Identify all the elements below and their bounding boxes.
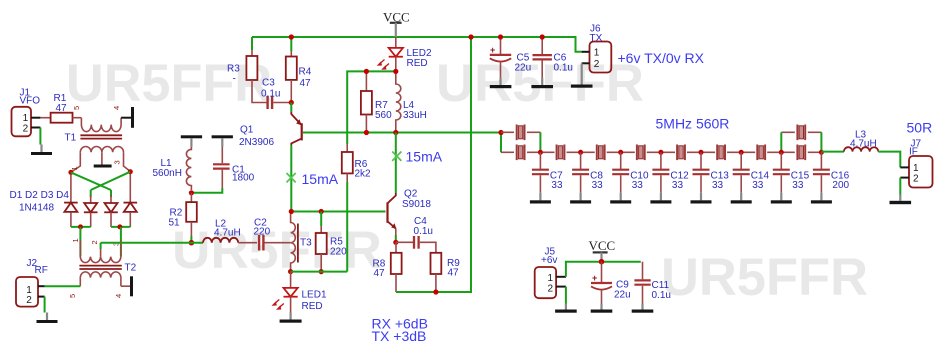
svg-text:200: 200 xyxy=(832,180,849,191)
svg-text:VCC: VCC xyxy=(589,238,616,253)
crystal series 5 xyxy=(715,144,727,161)
svg-text:RED: RED xyxy=(302,301,323,312)
wire base line xyxy=(303,132,501,134)
node diode pair left xyxy=(78,224,83,229)
label J2 RF xyxy=(27,258,48,276)
wire output pair left riser xyxy=(780,132,782,152)
label LED2 RED xyxy=(407,48,432,69)
inductor L1 xyxy=(186,147,191,190)
label LED1 RED xyxy=(302,290,327,313)
svg-text:5MHz 560R: 5MHz 560R xyxy=(656,116,730,132)
svg-text:33: 33 xyxy=(592,180,604,191)
node rail R4 xyxy=(289,34,294,39)
label R6 2k2 xyxy=(355,159,372,180)
label L1 560nH xyxy=(153,158,182,179)
svg-text:LED1: LED1 xyxy=(302,290,327,301)
svg-text:560nH: 560nH xyxy=(153,168,182,179)
label R2 51 xyxy=(169,208,183,229)
svg-text:2: 2 xyxy=(26,295,32,306)
svg-text:Q1: Q1 xyxy=(240,125,254,136)
svg-text:33: 33 xyxy=(752,180,764,191)
label R1 47 xyxy=(54,93,68,114)
capacitor C5 xyxy=(490,37,511,78)
T1 pin numbers xyxy=(70,106,122,171)
ground right of T1 xyxy=(131,107,134,128)
connector J2 xyxy=(16,277,45,307)
svg-text:TX: TX xyxy=(590,33,603,44)
label RX +6dB TX +3dB xyxy=(372,315,428,344)
ground below C6 xyxy=(531,78,553,89)
svg-text:+6v: +6v xyxy=(541,255,557,266)
transistor Q2 xyxy=(388,193,397,242)
ground at J1 xyxy=(31,145,52,156)
svg-text:0.1u: 0.1u xyxy=(414,226,433,237)
svg-text:15mA: 15mA xyxy=(302,171,339,187)
label R5 220 xyxy=(330,237,347,258)
wire emitter resistors return xyxy=(396,37,471,292)
ground below J6 xyxy=(571,85,593,88)
svg-text:2: 2 xyxy=(594,59,600,70)
resistor R1 xyxy=(51,113,82,123)
svg-text:33: 33 xyxy=(712,180,724,191)
svg-text:2: 2 xyxy=(23,123,29,134)
wire LED1 node xyxy=(291,271,348,273)
node RX line xyxy=(189,240,195,246)
svg-text:2: 2 xyxy=(913,174,919,185)
svg-text:RF: RF xyxy=(35,265,48,276)
svg-text:1800: 1800 xyxy=(232,173,255,184)
label C8 33 xyxy=(590,171,603,192)
svg-text:33: 33 xyxy=(551,180,563,191)
svg-text:UR5FFR: UR5FFR xyxy=(172,221,382,280)
diode D4 xyxy=(124,174,138,227)
capacitor C1 xyxy=(213,147,230,188)
svg-text:22u: 22u xyxy=(614,290,631,301)
ground at J2 xyxy=(37,313,58,324)
node L1 C1 R2 xyxy=(189,190,194,195)
svg-text:UR5FFR: UR5FFR xyxy=(436,54,644,113)
label R8 47 xyxy=(373,259,386,280)
capacitor C8 xyxy=(570,150,591,204)
label L4 33uH xyxy=(403,100,427,121)
diode D1 xyxy=(64,175,78,227)
label C11 0.1u xyxy=(652,280,671,301)
ground below J5 xyxy=(555,304,577,313)
capacitor C12 xyxy=(650,150,671,204)
svg-text:UR5FFR: UR5FFR xyxy=(661,248,868,307)
capacitor C9 xyxy=(591,262,612,304)
svg-text:0.1u: 0.1u xyxy=(261,89,280,100)
resistor R8 xyxy=(391,242,402,292)
wire to T2 winding xyxy=(80,227,121,256)
diode D2 xyxy=(84,195,98,227)
svg-text:D1 D2 D3 D4: D1 D2 D3 D4 xyxy=(10,190,70,201)
diode D3 xyxy=(104,195,118,227)
node C6 xyxy=(540,34,545,39)
svg-text:+: + xyxy=(490,45,495,55)
label R9 47 xyxy=(447,258,460,279)
svg-text:C3: C3 xyxy=(262,78,275,89)
svg-text:5: 5 xyxy=(72,106,81,110)
label L3 4.7uH xyxy=(850,130,877,150)
capacitor C2 xyxy=(259,235,291,251)
node R5 top xyxy=(319,209,324,214)
resistor R5 xyxy=(316,212,327,272)
node R5 bottom xyxy=(319,269,324,274)
wire J1 pin2 to ground xyxy=(39,128,41,145)
label C9 22u xyxy=(614,280,631,301)
crystal series 1 xyxy=(555,144,567,161)
svg-text:1N4148: 1N4148 xyxy=(19,203,54,214)
node R7 top xyxy=(364,69,369,74)
svg-text:1: 1 xyxy=(70,166,79,170)
ground below C11 xyxy=(632,304,654,313)
transistor Q1 xyxy=(291,103,301,212)
svg-text:T1: T1 xyxy=(65,133,77,144)
label C10 33 xyxy=(630,171,649,192)
svg-text:50R: 50R xyxy=(907,120,933,136)
wire filter main row xyxy=(540,151,781,153)
svg-text:RED: RED xyxy=(407,58,428,69)
svg-text:1: 1 xyxy=(594,47,600,58)
current mark 15mA xyxy=(287,171,339,187)
inductor L2 xyxy=(203,238,257,243)
svg-text:0.1u: 0.1u xyxy=(652,290,671,301)
node rail return xyxy=(468,34,473,39)
svg-text:T2: T2 xyxy=(125,263,137,274)
crystal series 6 xyxy=(755,144,767,161)
node C3 R4 Q1 xyxy=(289,100,294,105)
capacitor C3 xyxy=(268,96,292,109)
wire filter out to L3 xyxy=(821,151,844,153)
crystal output bottom xyxy=(795,144,807,161)
wire Q2 collector xyxy=(395,133,397,194)
label L2 4.7uH xyxy=(214,219,241,239)
transformer T1 xyxy=(71,118,130,172)
ground below LED1 xyxy=(280,313,302,323)
node VCC C9 xyxy=(599,259,605,265)
wire output pair stubs xyxy=(781,132,821,152)
ground below J7 xyxy=(890,195,912,205)
wire L3 to J7 xyxy=(878,152,900,168)
wire input pair right riser xyxy=(539,132,541,152)
svg-text:220: 220 xyxy=(330,247,347,258)
ground below C9 xyxy=(591,304,613,313)
crystal input top xyxy=(515,124,527,141)
wire J6 pin2 to ground xyxy=(581,63,583,84)
resistor R6 xyxy=(342,144,353,272)
svg-text:47: 47 xyxy=(56,103,68,114)
crystal series 3 xyxy=(635,144,647,161)
svg-text:33uH: 33uH xyxy=(403,110,427,121)
capacitor C6 xyxy=(533,37,552,78)
wire J1 to R1 xyxy=(40,117,50,119)
node L4 bottom xyxy=(393,130,398,135)
label C16 200 xyxy=(831,171,850,192)
svg-text:IF: IF xyxy=(909,147,918,158)
LED1 xyxy=(273,272,298,313)
wire J7 pin2 to ground xyxy=(899,178,901,195)
resistor R9 xyxy=(431,253,442,292)
svg-text:47: 47 xyxy=(448,268,460,279)
label J7 IF xyxy=(909,139,922,158)
label R4 47 xyxy=(299,67,312,90)
node R7 bottom xyxy=(364,130,369,135)
svg-text:33: 33 xyxy=(792,180,804,191)
label J5 +6v xyxy=(541,247,557,267)
top rail wire xyxy=(252,37,582,52)
label C13 33 xyxy=(711,171,730,192)
wire Q2 base line xyxy=(291,211,385,213)
ground below C5 xyxy=(490,78,512,89)
svg-text:R4: R4 xyxy=(299,67,312,78)
svg-text:2: 2 xyxy=(90,240,99,244)
svg-text:0.1u: 0.1u xyxy=(554,63,573,74)
label C4 0.1u xyxy=(414,216,433,237)
capacitor C16 xyxy=(811,150,832,204)
svg-text:UR5FFR: UR5FFR xyxy=(66,54,272,113)
svg-text:4: 4 xyxy=(114,294,123,298)
ground bar above C1 xyxy=(212,135,233,147)
node LED2 cathode xyxy=(393,69,398,74)
wire RX line to L2 xyxy=(101,242,203,244)
label C14 33 xyxy=(751,171,770,192)
svg-text:-: - xyxy=(233,74,236,85)
resistor R3 xyxy=(246,37,268,103)
wire J5 pin1 to VCC node xyxy=(566,262,641,277)
svg-text:33: 33 xyxy=(672,180,684,191)
svg-text:1: 1 xyxy=(71,238,80,242)
node T3 bottom xyxy=(288,269,293,274)
label C6 0.1u xyxy=(554,53,573,74)
label J6 TX xyxy=(590,24,603,45)
capacitor C7 xyxy=(530,150,551,204)
node Q2 emitter xyxy=(393,240,398,245)
crystal series 2 xyxy=(595,144,607,161)
svg-text:T3: T3 xyxy=(300,238,312,249)
wire J2 pin1 to T2 xyxy=(45,285,81,287)
crystal output top xyxy=(795,124,807,141)
label C1 1800 xyxy=(232,164,255,183)
connector J5 xyxy=(535,267,566,298)
node C5 xyxy=(498,34,503,39)
label R7 560 xyxy=(375,100,392,121)
svg-text:3: 3 xyxy=(113,160,122,164)
connector J6 xyxy=(582,42,612,73)
crystal series 4 xyxy=(675,144,687,161)
node filter input xyxy=(498,130,503,135)
svg-text:S9018: S9018 xyxy=(402,199,431,210)
label C12 33 xyxy=(670,171,689,192)
capacitor C14 xyxy=(731,150,752,204)
node Q1 collector T3 xyxy=(289,209,294,214)
wire crossover X xyxy=(71,172,130,197)
node T1 left xyxy=(68,170,73,175)
svg-text:33: 33 xyxy=(632,180,644,191)
connector J1 xyxy=(12,107,41,137)
LED2 xyxy=(378,37,403,71)
label C3 0.1u xyxy=(261,78,280,100)
svg-text:47: 47 xyxy=(300,78,312,89)
label C2 220 xyxy=(254,218,271,238)
capacitor C11 xyxy=(634,262,650,304)
power VCC xyxy=(383,10,410,38)
wire T1 to ground xyxy=(121,117,131,119)
label J1 VFO xyxy=(20,88,41,107)
label Q2 S9018 xyxy=(402,189,431,210)
capacitor C10 xyxy=(610,150,631,204)
transformer T2 xyxy=(79,240,121,286)
label C5 22u xyxy=(515,53,532,74)
wire T2 tap to RX line xyxy=(100,243,102,249)
svg-text:2k2: 2k2 xyxy=(355,169,372,180)
label Q1 2N3906 xyxy=(239,125,274,149)
wire J2 pin2 to ground xyxy=(44,297,46,313)
capacitor C13 xyxy=(691,150,712,204)
svg-text:+: + xyxy=(592,273,597,283)
connector J7 xyxy=(900,156,932,188)
svg-text:5: 5 xyxy=(68,294,77,298)
current mark 15mA second xyxy=(392,149,443,165)
svg-text:2: 2 xyxy=(548,283,554,294)
wire emitter to C4 xyxy=(396,241,413,243)
svg-text:2N3906: 2N3906 xyxy=(239,137,274,148)
wire node A xyxy=(347,71,396,144)
wire diode bottoms right pair xyxy=(111,226,130,228)
svg-text:4.7uH: 4.7uH xyxy=(850,139,877,150)
power VCC second xyxy=(589,238,616,262)
resistor R4 xyxy=(286,37,297,103)
node diode pair right xyxy=(117,224,122,229)
label C7 33 xyxy=(550,171,563,192)
resistor R7 xyxy=(361,71,372,132)
wire input pair stubs xyxy=(501,132,540,152)
svg-text:+6v TX/0v RX: +6v TX/0v RX xyxy=(618,50,705,66)
capacitor C4 xyxy=(414,236,436,253)
wire output pair right riser xyxy=(820,132,822,152)
node R9 bottom xyxy=(433,289,438,294)
transformer T3 xyxy=(291,214,298,272)
node T1 right xyxy=(128,169,133,174)
wire diode bottoms left pair xyxy=(71,226,91,228)
svg-text:47: 47 xyxy=(374,268,386,279)
svg-text:51: 51 xyxy=(169,218,181,229)
resistor R2 xyxy=(186,193,197,243)
label C15 33 xyxy=(791,171,810,192)
wire filter input riser xyxy=(500,133,502,153)
svg-text:15mA: 15mA xyxy=(406,149,443,165)
svg-text:4: 4 xyxy=(112,106,121,110)
svg-text:22u: 22u xyxy=(515,63,532,74)
inductor L4 xyxy=(396,71,401,132)
inductor L3 xyxy=(844,147,878,151)
wire J5 pin2 to ground xyxy=(565,287,567,304)
ground right of T2 xyxy=(130,276,133,296)
svg-text:VFO: VFO xyxy=(20,96,41,107)
svg-text:220: 220 xyxy=(254,227,271,238)
svg-text:1: 1 xyxy=(913,163,919,174)
svg-text:1: 1 xyxy=(26,285,32,296)
wire T2 to ground xyxy=(121,285,130,287)
ground bar above L1 xyxy=(181,135,202,147)
wire C1 to L1 node xyxy=(191,188,222,193)
svg-text:4.7uH: 4.7uH xyxy=(214,228,241,239)
T2 pin numbers xyxy=(68,238,123,298)
svg-text:560: 560 xyxy=(375,110,392,121)
label R3 - xyxy=(227,64,240,85)
svg-text:TX +3dB: TX +3dB xyxy=(372,328,427,344)
crystal input bottom xyxy=(515,144,527,161)
capacitor C15 xyxy=(771,150,792,204)
